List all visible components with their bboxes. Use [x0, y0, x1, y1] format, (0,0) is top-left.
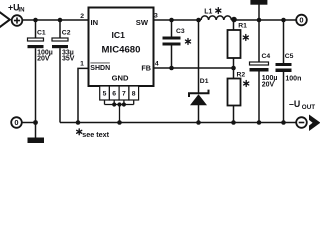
svg-text:see text: see text [82, 130, 109, 139]
svg-text:C4: C4 [262, 53, 271, 60]
svg-text:20V: 20V [262, 82, 275, 89]
svg-text:C1: C1 [37, 30, 46, 37]
svg-text:GND: GND [112, 73, 129, 82]
svg-text:3: 3 [154, 12, 158, 19]
svg-text:SW: SW [136, 18, 149, 27]
svg-text:IN: IN [91, 18, 99, 27]
svg-text:–U: –U [289, 99, 300, 109]
svg-text:5: 5 [103, 91, 107, 98]
svg-text:2: 2 [80, 13, 84, 20]
svg-text:SHDN: SHDN [90, 65, 110, 72]
svg-text:8: 8 [132, 91, 136, 98]
svg-text:C3: C3 [176, 28, 185, 35]
svg-text:100n: 100n [285, 75, 301, 82]
svg-text:MIC4680: MIC4680 [102, 44, 141, 55]
svg-text:IN: IN [18, 7, 24, 14]
svg-text:R1: R1 [238, 23, 247, 30]
svg-text:D1: D1 [200, 78, 209, 85]
svg-text:C5: C5 [285, 53, 294, 60]
svg-text:0: 0 [299, 16, 303, 25]
svg-text:6: 6 [112, 91, 116, 98]
svg-text:IC1: IC1 [112, 30, 126, 40]
svg-text:L1: L1 [204, 8, 212, 15]
svg-text:C2: C2 [62, 30, 71, 37]
svg-text:0: 0 [14, 118, 18, 127]
svg-text:20V: 20V [37, 56, 50, 63]
svg-text:FB: FB [141, 63, 151, 72]
svg-text:4: 4 [155, 60, 159, 67]
svg-text:1: 1 [80, 60, 84, 67]
svg-text:OUT: OUT [302, 104, 315, 111]
svg-text:7: 7 [122, 91, 126, 98]
svg-text:R2: R2 [237, 71, 246, 78]
svg-text:35V: 35V [62, 56, 75, 63]
